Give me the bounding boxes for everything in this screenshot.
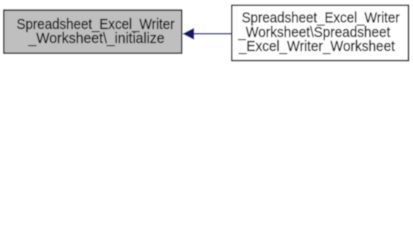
node box: Spreadsheet_Excel_Writer_Worksheet\Spreadsheet_Excel_Writer_Worksheet (caller node, white) [232, 5, 409, 60]
edge wire: caller arrow shaft [193, 33, 231, 35]
node box: Spreadsheet_Excel_Writer_Worksheet\_initialize (current node, grey) [4, 10, 182, 53]
svg-text:_Excel_Writer_Worksheet: _Excel_Writer_Worksheet [238, 38, 396, 55]
edge arrowhead pointing to current node [184, 29, 194, 39]
svg-text:_Worksheet\_initialize: _Worksheet\_initialize [28, 30, 165, 47]
call-graph diagram: Spreadsheet_Excel_Writer_Worksheet caller graph [0, 0, 413, 67]
